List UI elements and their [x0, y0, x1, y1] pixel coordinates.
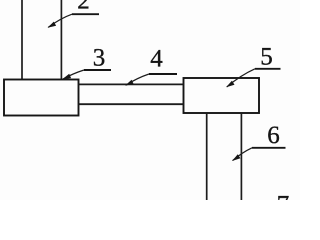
node: left box (unit 3) [4, 80, 79, 116]
wire: connector duct bottom line [79, 103, 184, 105]
svg-text:2: 2 [77, 0, 90, 15]
wire: top inlet pipe right line [60, 0, 62, 80]
label 2 leader [48, 14, 100, 28]
label 3 leader [62, 70, 111, 79]
label 6 leader [232, 148, 286, 161]
svg-text:5: 5 [260, 44, 273, 71]
svg-text:4: 4 [150, 45, 163, 72]
svg-text:6: 6 [267, 122, 280, 149]
wire: connector duct top line (4) [79, 83, 184, 85]
wire: bottom outlet pipe right line [240, 113, 242, 200]
svg-text:3: 3 [93, 44, 106, 71]
label 5 leader [226, 69, 281, 88]
wire: top inlet pipe left line [21, 0, 23, 80]
wire: bottom outlet pipe left line [206, 113, 208, 200]
node: right box (unit 5) [184, 78, 260, 113]
svg-text:7: 7 [277, 192, 290, 201]
label 4 leader [125, 74, 177, 86]
